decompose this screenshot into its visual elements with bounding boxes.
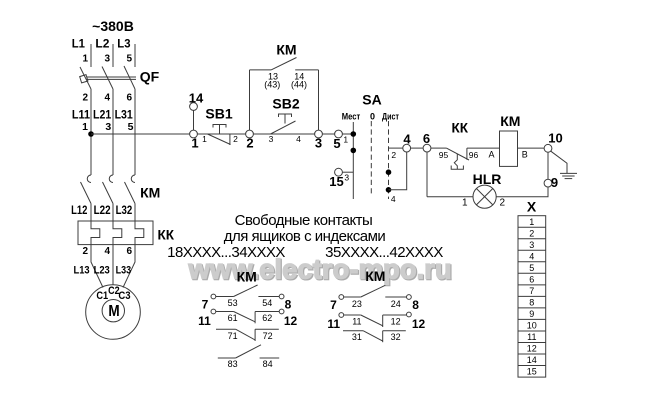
terminal 15 circle [335, 168, 343, 176]
svg-text:95: 95 [439, 150, 449, 160]
svg-text:~380В: ~380В [92, 18, 134, 34]
pushbutton SB1 actuator [213, 125, 226, 134]
svg-text:84: 84 [263, 359, 273, 369]
terminal 10 circle [544, 144, 552, 152]
svg-text:SB2: SB2 [272, 96, 299, 112]
svg-text:L1: L1 [72, 37, 85, 51]
circuit breaker QF pole 3 blade [124, 66, 135, 89]
svg-text:4: 4 [403, 132, 411, 147]
svg-text:83: 83 [228, 359, 238, 369]
svg-text:11: 11 [527, 332, 536, 342]
SA contact dot 2 [351, 148, 357, 154]
wire L22 vertical [112, 204, 114, 222]
terminal block X numbers [527, 217, 537, 377]
svg-text:10: 10 [548, 131, 562, 146]
terminal 6 circle [423, 144, 431, 152]
svg-text:10: 10 [527, 321, 537, 331]
circuit breaker QF pole 2 blade [102, 67, 113, 90]
svg-text:72: 72 [263, 331, 273, 341]
svg-text:1: 1 [462, 198, 468, 209]
wire terminal 10 to terminal 9 [547, 152, 549, 179]
svg-text:2: 2 [391, 150, 396, 160]
svg-text:61: 61 [228, 313, 238, 323]
SA contact dot 3 [386, 169, 392, 175]
svg-text:КК: КК [158, 228, 175, 243]
svg-text:15: 15 [527, 367, 537, 377]
svg-text:SA: SA [362, 92, 381, 108]
svg-text:3: 3 [269, 134, 274, 144]
wire terminal 4 to terminal 6 [411, 147, 424, 149]
svg-text:5: 5 [333, 136, 340, 151]
SA local position line [352, 122, 354, 199]
svg-text:КМ: КМ [140, 185, 160, 201]
wire terminal 6 to KK contact [431, 147, 447, 149]
motor M inner circle [102, 300, 124, 322]
svg-text:2: 2 [82, 246, 88, 257]
thermal contact KK fixed bar [466, 148, 468, 160]
svg-text:L23: L23 [94, 265, 110, 277]
svg-text:3: 3 [529, 240, 534, 250]
wire SA dot4 to terminal 4 [389, 152, 407, 190]
SA remote position line (dashed) [388, 121, 390, 199]
svg-text:HLR: HLR [473, 171, 502, 187]
contactor KM pole 1 contact [87, 175, 91, 183]
wire lamp to node 6 [427, 196, 473, 198]
svg-text:2: 2 [82, 93, 88, 104]
svg-text:24: 24 [391, 299, 401, 309]
svg-text:12: 12 [391, 317, 401, 327]
svg-text:2: 2 [246, 136, 253, 151]
wire latch left vertical [249, 70, 251, 130]
svg-text:7: 7 [529, 286, 534, 296]
svg-text:0: 0 [370, 112, 375, 122]
aux group 1 contact 53-54 [216, 296, 234, 298]
svg-text:62: 62 [262, 313, 272, 323]
svg-text:53: 53 [228, 298, 238, 308]
svg-text:КМ: КМ [276, 42, 296, 58]
svg-text:L32: L32 [116, 205, 133, 217]
thermal release symbol [454, 154, 457, 169]
svg-text:SB1: SB1 [205, 106, 232, 122]
wire L12 vertical [90, 204, 92, 222]
svg-text:КМ: КМ [500, 113, 520, 129]
wire terminal 14 to line [193, 110, 195, 130]
svg-text:8: 8 [529, 298, 534, 308]
svg-text:М: М [108, 303, 119, 320]
svg-text:11: 11 [198, 314, 211, 328]
svg-text:4: 4 [391, 194, 396, 204]
terminal 1 circle [190, 130, 198, 138]
svg-text:7: 7 [330, 298, 337, 312]
SA contact dot 4 [386, 187, 392, 193]
svg-text:Дист: Дист [382, 112, 399, 122]
junction dot on L11 [88, 131, 94, 137]
svg-text:96: 96 [469, 150, 479, 160]
svg-text:6: 6 [126, 93, 132, 104]
terminal block X [518, 216, 546, 377]
svg-text:71: 71 [228, 331, 238, 341]
svg-text:9: 9 [551, 175, 558, 190]
svg-text:54: 54 [262, 298, 272, 308]
svg-text:Свободные контакты: Свободные контакты [235, 212, 373, 229]
wire L31 vertical [134, 89, 136, 175]
svg-text:2: 2 [233, 134, 238, 144]
svg-text:14: 14 [527, 355, 537, 365]
svg-text:3: 3 [344, 173, 349, 183]
svg-text:5: 5 [529, 263, 534, 273]
svg-text:12: 12 [284, 314, 298, 328]
svg-text:www.electro-mpo.ru: www.electro-mpo.ru [187, 254, 451, 285]
circuit breaker QF linkage bar [87, 76, 137, 78]
pushbutton SB1 blade [208, 134, 231, 145]
svg-text:X: X [527, 199, 537, 215]
wire L23 to motor [112, 245, 114, 285]
svg-text:L22: L22 [94, 205, 111, 217]
svg-text:L2: L2 [95, 37, 109, 51]
svg-text:L3: L3 [117, 37, 130, 51]
wire latch right vertical [318, 70, 320, 130]
terminal 3 circle [315, 130, 323, 138]
svg-text:7: 7 [202, 298, 209, 312]
svg-text:6: 6 [423, 131, 430, 146]
svg-text:(43): (43) [264, 80, 280, 90]
wire L13 to motor [91, 245, 103, 288]
aux group 1 contact 61-62 [216, 311, 234, 313]
wire terminal 9 to lamp [496, 187, 548, 197]
circuit breaker QF pole 1 blade [80, 67, 91, 89]
wire L1 top stub [90, 44, 92, 67]
svg-text:6: 6 [529, 275, 534, 285]
wire KK to KM coil [467, 147, 500, 149]
wire L3 top stub [134, 44, 136, 67]
svg-text:для ящиков с индексами: для ящиков с индексами [224, 228, 386, 245]
svg-text:4: 4 [529, 252, 534, 262]
svg-text:1: 1 [82, 121, 88, 133]
svg-text:L31: L31 [115, 108, 133, 122]
terminal 5 circle [335, 130, 343, 138]
wire L2 top stub [112, 44, 114, 67]
svg-text:L21: L21 [93, 108, 111, 122]
aux group 2 contact 31-32 [343, 330, 363, 332]
svg-text:8: 8 [412, 298, 419, 312]
svg-text:3: 3 [315, 136, 322, 151]
wire node 6 vertical [426, 152, 428, 197]
ground [560, 172, 577, 174]
svg-text:3: 3 [104, 54, 110, 65]
svg-text:1: 1 [202, 134, 207, 144]
aux group 1 contact 83-84 [218, 357, 236, 359]
thermal relay KK box [78, 221, 153, 245]
svg-text:6: 6 [126, 246, 132, 257]
svg-text:C3: C3 [118, 290, 130, 302]
terminal 4 circle [403, 144, 411, 152]
svg-text:КМ: КМ [365, 268, 385, 284]
aux group 2 contact 23-24 [344, 296, 361, 298]
SA contact dot 1 [351, 131, 357, 137]
svg-text:12: 12 [527, 344, 537, 354]
svg-text:1: 1 [343, 135, 348, 145]
wire L32 vertical [134, 204, 136, 222]
svg-text:5: 5 [128, 121, 134, 133]
svg-text:2: 2 [529, 229, 534, 239]
wire L11 vertical [90, 89, 92, 175]
svg-text:12: 12 [412, 317, 426, 331]
svg-text:QF: QF [140, 69, 160, 85]
svg-text:Мест: Мест [342, 112, 361, 122]
svg-text:3: 3 [105, 121, 111, 133]
wire terminal 15 to SA [342, 171, 353, 173]
svg-text:B: B [522, 150, 528, 160]
svg-text:1: 1 [82, 54, 88, 65]
svg-text:A: A [488, 150, 494, 160]
svg-text:(44): (44) [291, 80, 307, 90]
thermal relay KK heater 1 [91, 221, 100, 245]
svg-text:9: 9 [529, 309, 534, 319]
pushbutton SB1 fixed bar [229, 134, 231, 145]
aux group 1 contact 71-72 [216, 328, 236, 330]
control circuit main wire [91, 133, 353, 135]
svg-text:11: 11 [327, 317, 340, 331]
pushbutton SB2 actuator [279, 114, 292, 124]
lamp HLR [473, 185, 496, 208]
svg-text:2: 2 [500, 198, 506, 209]
svg-text:1: 1 [529, 217, 534, 227]
contactor KM pole 2 contact [109, 175, 113, 183]
motor M outer circle [86, 285, 141, 340]
thermal relay KK heater 3 [135, 221, 144, 245]
terminal 2 circle [246, 130, 254, 138]
svg-text:L12: L12 [71, 205, 87, 217]
contactor KM pole 3 contact [131, 175, 135, 183]
svg-text:31: 31 [352, 332, 362, 342]
contactor latch KM contact [250, 69, 272, 71]
svg-text:L11: L11 [72, 108, 90, 122]
circuit breaker QF latch square [80, 75, 88, 83]
svg-text:15: 15 [329, 174, 343, 189]
svg-text:L13: L13 [74, 265, 90, 277]
terminal 9 circle [544, 179, 552, 187]
wire L33 to motor [123, 245, 135, 288]
wire coil to terminal 10 [518, 147, 545, 149]
wire SA to terminal 4 [389, 147, 403, 149]
svg-text:23: 23 [352, 299, 362, 309]
svg-text:4: 4 [104, 93, 110, 104]
svg-text:8: 8 [285, 298, 292, 312]
coil KM box [500, 131, 518, 166]
svg-text:11: 11 [352, 317, 361, 327]
svg-text:L33: L33 [116, 265, 132, 277]
svg-text:C1: C1 [96, 290, 108, 302]
wire terminal 10 to ground [551, 151, 567, 173]
wire L21 vertical [112, 89, 114, 175]
terminal 14 circle [190, 103, 198, 111]
aux group 2 contact 11-12 [344, 314, 361, 316]
svg-text:5: 5 [126, 54, 132, 65]
svg-text:32: 32 [391, 332, 401, 342]
thermal contact KK blade [446, 148, 469, 160]
svg-text:1: 1 [191, 136, 198, 151]
svg-text:КМ: КМ [237, 269, 257, 285]
pushbutton SB2 blade [271, 121, 296, 134]
SA zero position line (dashed) [370, 121, 372, 196]
svg-text:4: 4 [104, 246, 110, 257]
svg-text:КК: КК [452, 121, 469, 136]
svg-text:4: 4 [296, 134, 301, 144]
thermal relay KK heater 2 [113, 221, 122, 245]
